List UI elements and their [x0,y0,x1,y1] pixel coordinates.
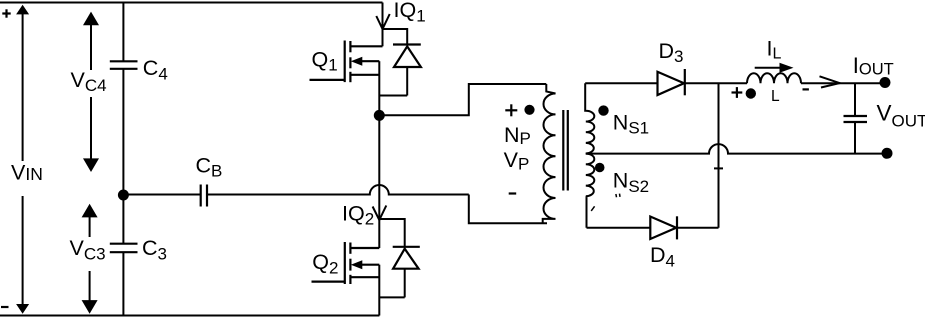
diode D4 [650,216,677,239]
wire: inductor to output node [801,82,855,84]
wire: bottom input rail [0,315,379,317]
svg-text:VOUT: VOUT [877,101,925,131]
wire: Q1 source riser [378,61,380,115]
svg-text:VC4: VC4 [71,68,107,95]
node: capacitor midpoint junction [118,190,129,201]
svg-text:VIN: VIN [11,161,43,185]
svg-text:IQ1: IQ1 [394,0,426,25]
current arrow IL [755,63,794,73]
wire: secondary bottom terminal to D4 [587,227,651,229]
annotation arrow: VIN upper (up head) [16,5,29,161]
polarity dot: primary winding [524,105,534,115]
svg-text:VP: VP [504,148,530,174]
svg-text:D3: D3 [659,39,684,66]
wire: midpoint node to CB [123,194,200,196]
capacitor COUT drop to return [854,122,856,154]
wire: Q1 drain riser from top rail [382,3,384,47]
polarity dot: NS2 [595,163,605,173]
current arrow IQ1 (chevron) [376,14,389,29]
plus sign: inductor input positive [732,87,743,98]
wire: Q2 body-diode anode drop [404,269,406,298]
node: half-bridge switch node [374,110,385,121]
inductor L [747,73,801,83]
svg-text:NS1: NS1 [613,110,649,137]
MOSFET Q1 [310,41,383,83]
terminal dot: IOUT [880,77,891,88]
MOSFET Q2 [312,242,380,284]
polarity dot: inductor input [746,88,756,98]
wire: D4 cathode to riser [677,227,719,229]
wire: input bus from top rail to C4 [122,3,124,62]
svg-text:NP: NP [504,123,531,148]
wire: switch node to transformer primary top [379,84,546,115]
wire: primary bottom return (down then right to winding) [469,195,547,224]
wire: input bus from C4 to C3 [122,69,124,244]
wire: D3 cathode to inductor [685,82,747,84]
plus sign: primary positive [505,104,517,116]
annotation arrow VC3 (double headed) [82,204,98,314]
capacitor C3 [110,244,138,253]
diode: Q2 body diode [393,247,420,269]
svg-text:IQ2: IQ2 [342,202,374,229]
current chevron on output wire [820,76,840,87]
wire: center tap to output return with crossover hop [586,144,887,153]
svg-text:C4: C4 [143,56,168,84]
wire: switch node down to Q2 drain [378,115,380,248]
svg-text:L: L [771,88,780,105]
transformer secondary winding NS2 [586,154,595,228]
wire: Q2 body-diode branch [379,219,404,247]
capacitor CB [201,185,207,207]
wire: output node to IOUT terminal [855,82,885,84]
terminal dot: output return [882,148,893,159]
transformer core [563,110,568,191]
transformer secondary winding NS1 [585,83,594,153]
stray mark below NS2 label [591,194,620,211]
wire: secondary top terminal to D3 [585,82,657,84]
svg-text:Q2: Q2 [312,250,338,277]
junction tick on D4 riser [714,167,723,169]
capacitor C4 [110,61,138,69]
wire: CB to primary bottom corner with crossover hop [207,185,469,195]
transformer primary winding NP [543,84,556,223]
svg-text:IL: IL [767,36,782,62]
svg-text:IOUT: IOUT [853,53,894,79]
svg-text:VC3: VC3 [70,236,106,264]
diode D3 [658,69,685,95]
wire: Q1 source and anode joint [379,95,407,97]
plus sign: VIN positive terminal [2,9,10,17]
svg-text:NS2: NS2 [613,169,649,196]
annotation arrow VC4 (double headed) [83,12,99,172]
svg-text:D4: D4 [650,243,675,270]
minus sign: VIN negative terminal [1,306,9,308]
current arrow IQ2 (chevron) [373,206,387,221]
wire: input bus from C3 to bottom rail [122,252,124,315]
wire: Q1 body-diode anode drop [406,67,408,96]
polarity dot: NS1 [598,105,608,115]
svg-text:Q1: Q1 [312,47,338,74]
wire: Q1 body-diode branch [383,29,408,45]
svg-text:C3: C3 [142,236,167,263]
capacitor COUT [844,116,868,122]
minus sign: primary negative [509,192,517,194]
wire: Q2 source riser to bottom rail [378,265,380,316]
annotation arrow: VIN lower (down head) [16,196,29,314]
svg-text:CB: CB [196,153,223,180]
wire: D4 riser up to output node [718,83,720,228]
wire: top input rail [0,2,383,4]
wire: Q2 source and anode joint [379,296,404,298]
diode: Q1 body diode [393,45,421,68]
capacitor COUT riser [854,83,856,116]
minus sign: inductor output negative [803,88,809,90]
